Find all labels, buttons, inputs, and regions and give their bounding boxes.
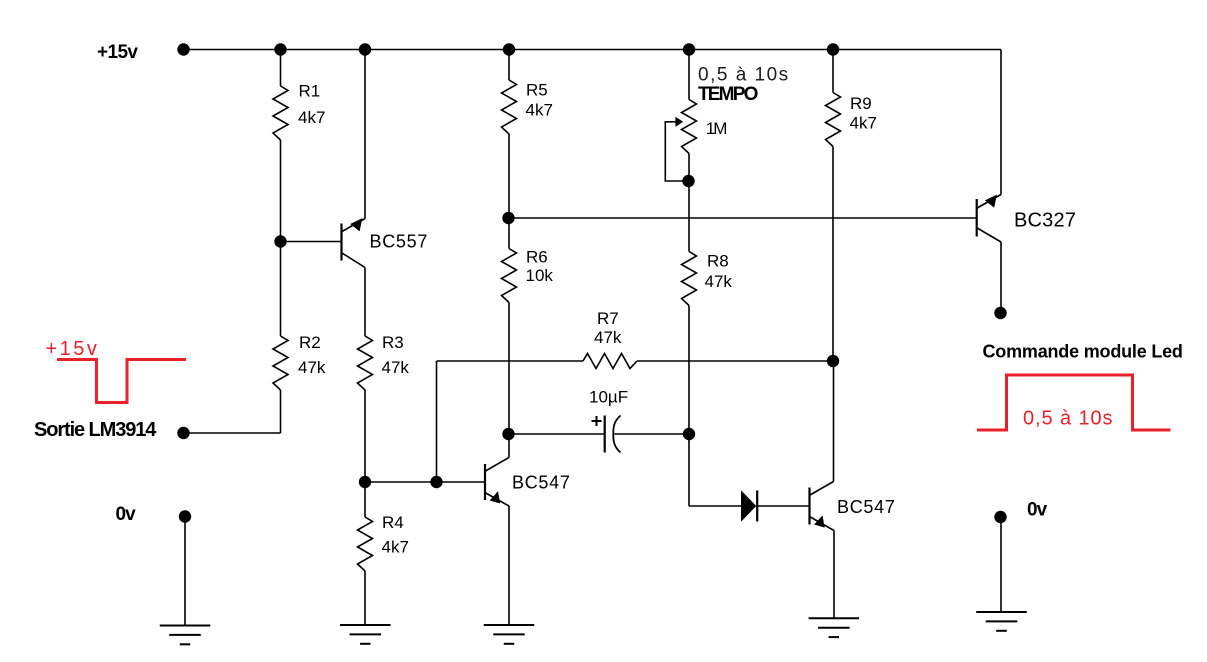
svg-text:4k7: 4k7	[382, 538, 409, 557]
svg-text:1M: 1M	[706, 119, 726, 138]
svg-text:R2: R2	[299, 333, 321, 352]
svg-text:BC557: BC557	[370, 232, 429, 252]
svg-text:4k7: 4k7	[850, 114, 877, 133]
svg-text:TEMPO: TEMPO	[698, 84, 758, 105]
svg-text:R9: R9	[850, 94, 872, 113]
svg-text:47k: 47k	[298, 358, 326, 377]
svg-text:R6: R6	[526, 248, 548, 267]
svg-text:10µF: 10µF	[589, 388, 628, 407]
svg-text:R8: R8	[707, 252, 729, 271]
svg-text:0v: 0v	[1027, 500, 1048, 521]
svg-text:R1: R1	[299, 82, 321, 101]
svg-text:0,5 à 10s: 0,5 à 10s	[698, 65, 790, 86]
svg-text:R7: R7	[597, 309, 619, 328]
svg-text:BC547: BC547	[512, 473, 571, 493]
svg-text:+15v: +15v	[97, 42, 138, 63]
svg-text:Commande module Led: Commande module Led	[983, 342, 1183, 362]
svg-text:R5: R5	[526, 81, 548, 100]
svg-text:Sortie LM3914: Sortie LM3914	[34, 419, 157, 441]
svg-text:47k: 47k	[705, 272, 733, 291]
svg-text:47k: 47k	[382, 358, 410, 377]
svg-text:+15v: +15v	[46, 338, 100, 360]
svg-text:0,5 à 10s: 0,5 à 10s	[1023, 408, 1113, 430]
svg-text:R3: R3	[382, 333, 404, 352]
svg-text:47k: 47k	[594, 328, 622, 347]
svg-text:R4: R4	[382, 513, 404, 532]
svg-text:4k7: 4k7	[526, 101, 553, 120]
svg-text:BC327: BC327	[1014, 210, 1076, 232]
svg-text:0v: 0v	[116, 504, 137, 525]
svg-text:4k7: 4k7	[298, 108, 325, 127]
svg-text:BC547: BC547	[837, 497, 896, 517]
svg-text:10k: 10k	[526, 266, 554, 285]
